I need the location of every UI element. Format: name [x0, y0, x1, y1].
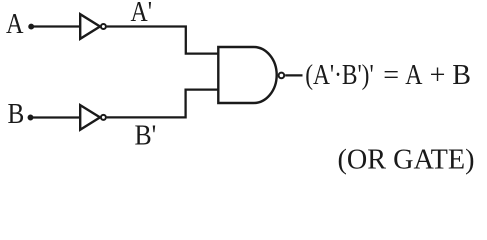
node B input dot: [28, 115, 32, 119]
node A input dot: [29, 24, 33, 28]
wire A' from bubble right, down, into NAND top input: [107, 27, 218, 54]
svg-text:A: A: [6, 9, 24, 40]
wire B' from bubble right, up, into NAND bottom input: [107, 90, 218, 118]
inverter U2 (NOT gate for B): [80, 105, 100, 130]
inverter U2 output bubble: [101, 115, 106, 120]
output wire: [285, 74, 302, 76]
inverter U1 (NOT gate for A): [80, 14, 100, 39]
svg-text:A': A': [131, 0, 153, 28]
NAND gate U3 body: [218, 47, 276, 103]
svg-text:B: B: [8, 99, 25, 130]
inverter U1 output bubble: [101, 24, 106, 29]
svg-text:B': B': [135, 121, 157, 152]
wire A to inverter U1: [31, 25, 80, 27]
wire B to inverter U2: [31, 116, 80, 118]
svg-text:=: =: [383, 60, 399, 91]
svg-text:(OR GATE): (OR GATE): [338, 144, 475, 175]
svg-text:(A'·B')': (A'·B')': [305, 60, 374, 91]
svg-text:A: A: [405, 60, 423, 91]
svg-text:+: +: [430, 60, 446, 91]
NAND gate U3 output bubble: [279, 73, 285, 79]
svg-text:B: B: [452, 60, 471, 91]
